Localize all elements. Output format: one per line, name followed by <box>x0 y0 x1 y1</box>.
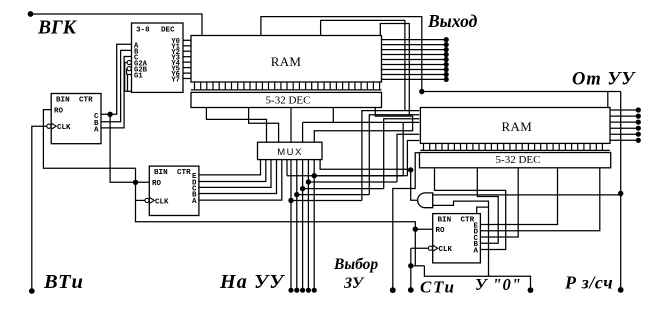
junction on MUX output x296 <box>294 192 299 197</box>
wire W2 RAM1 top to RAM2 pin row1 <box>321 20 405 110</box>
junction on P z/sch vertical <box>618 191 623 196</box>
svg-text:ВТи: ВТи <box>43 271 84 293</box>
wire to CTR3 RO <box>415 228 432 230</box>
wire Vybor ZU to U8 select <box>393 153 420 290</box>
wire CTR1.C to DEC1.A <box>101 44 132 114</box>
svg-text:СТи: СТи <box>420 278 456 297</box>
node Ot UU dots <box>636 107 641 112</box>
wire bus MUX outputs to Na UU dots <box>290 160 292 291</box>
wire select line v5 <box>287 175 407 177</box>
wire W3 RAM1 top to RAM2 pin row2 <box>380 24 409 115</box>
wire U8 pin3 to CTR3.C <box>480 168 518 237</box>
svg-text:A: A <box>192 198 197 206</box>
node Na UU dots <box>288 288 293 293</box>
wire W1 RAM1 top to junction <box>261 17 422 92</box>
junction CTR2 RO <box>133 180 138 185</box>
counter U5 BIN CTR <box>51 94 101 144</box>
junction on MUX output x314 <box>312 173 317 178</box>
counter U6 BIN CTR <box>149 166 199 215</box>
bubble G2A <box>127 60 131 64</box>
wire MUX pin7 to gate net <box>320 160 411 170</box>
svg-text:MUX: MUX <box>277 147 303 158</box>
wire CTR2.D to MUX <box>199 160 266 182</box>
wire W1 junction to P z/sch column <box>422 91 621 93</box>
svg-text:CTR: CTR <box>461 216 475 224</box>
svg-text:Выбор: Выбор <box>333 256 378 273</box>
wire CTR3 CO hook <box>477 207 489 214</box>
wire U8 pin2 to CTR3.B <box>477 168 498 243</box>
RAM U7 <box>420 108 610 144</box>
wire riser to RAM2 pin1 <box>362 111 419 201</box>
wire U8 pin1 to CTR3.A <box>435 168 506 250</box>
wire P z/sch vertical <box>620 92 622 290</box>
svg-text:G1: G1 <box>134 73 143 81</box>
svg-text:RAM: RAM <box>502 119 533 134</box>
wire gate in2 from U0 riser <box>433 201 489 276</box>
RAM U2 <box>191 36 382 83</box>
junction on MUX output x291 <box>288 198 293 203</box>
svg-text:CLK: CLK <box>439 246 453 254</box>
decoder U3 5-32 DEC <box>191 92 382 107</box>
wire riser to RAM2 pin2 <box>369 115 419 195</box>
wire U3 out3 to MUX in3 <box>290 108 292 143</box>
svg-text:От УУ: От УУ <box>572 70 636 90</box>
svg-text:RO: RO <box>152 180 162 188</box>
node Vybor ZU dot <box>390 287 396 293</box>
svg-text:Выход: Выход <box>427 11 478 31</box>
node STi dot <box>408 287 414 293</box>
wire bus RAM1 outputs to Vyhod dots <box>382 39 447 41</box>
junction STi line <box>408 263 413 268</box>
svg-text:RO: RO <box>54 108 64 116</box>
svg-text:CLK: CLK <box>155 198 169 206</box>
junction on CTR1.C line <box>107 112 112 117</box>
svg-text:ЗУ: ЗУ <box>343 275 365 292</box>
gate D1 AND (mirrored, output left) <box>418 193 433 208</box>
wire CTR2.B to MUX <box>199 160 277 194</box>
wire bus DEC1 Y outputs to RAM1 <box>183 39 191 41</box>
wire STi vertical <box>410 248 412 290</box>
decoder U8 5-32 DEC <box>420 153 611 168</box>
node VTi dot <box>29 288 35 294</box>
wire U3 out5 to MUX in5 <box>314 108 412 143</box>
svg-text:Y7: Y7 <box>171 76 180 84</box>
bubble CLK U5 <box>47 124 51 128</box>
wire U8 pin4 to CTR3.E <box>480 168 557 225</box>
wire CLK1 to VTi dot <box>32 126 47 291</box>
junction W1 <box>419 89 424 94</box>
counter U9 BIN CTR <box>433 214 481 263</box>
svg-text:RAM: RAM <box>271 54 302 69</box>
wire G1 stub <box>128 75 132 92</box>
junction gate output <box>408 167 413 172</box>
wire C-dot vertical to CTR2.RO <box>110 114 149 182</box>
wire riser to RAM2 pin6 <box>407 141 419 176</box>
svg-text:5-32 DEC: 5-32 DEC <box>496 154 541 166</box>
wire U0 path <box>424 266 530 290</box>
node U0 dot <box>528 287 534 293</box>
bubble G2B <box>127 67 131 71</box>
wire CTR1.A to DEC1.C <box>101 57 132 128</box>
svg-text:BIN: BIN <box>56 96 70 104</box>
junction CTR3 RO <box>413 227 418 232</box>
wire U8 pin5 to CTR3.D <box>480 168 599 231</box>
wire bus comb RAM1 to 5-32 DEC <box>191 89 382 91</box>
wire CTR2.A to MUX <box>199 160 282 201</box>
wire MUX in4 drop <box>302 122 304 142</box>
node P z/sch terminal dot <box>618 287 624 293</box>
svg-text:CTR: CTR <box>177 169 191 177</box>
wire CTR2.C to MUX <box>199 160 271 188</box>
svg-text:У "0": У "0" <box>475 275 522 294</box>
wire bus comb RAM2 to 5-32 DEC <box>420 149 610 151</box>
wire MUX in4 horizontal run <box>303 121 420 123</box>
svg-text:A: A <box>94 126 99 134</box>
svg-text:3-8: 3-8 <box>136 26 150 34</box>
wire branch y188 <box>303 188 384 190</box>
node Vyhod output dots <box>444 37 449 42</box>
wire bottom tie <box>411 265 425 267</box>
wire riser to RAM2 pin3 <box>384 119 420 189</box>
wire bus RAM2 outputs to Ot UU dots <box>610 109 638 111</box>
wire branch y200 <box>291 200 362 202</box>
svg-text:RO: RO <box>436 227 446 235</box>
bubble CLK U9 <box>428 246 432 250</box>
svg-text:BIN: BIN <box>154 169 168 177</box>
wire U3 out1 to MUX in1 <box>206 108 266 143</box>
svg-text:Р з/сч: Р з/сч <box>564 273 613 293</box>
bubble CLK U6 <box>145 198 149 202</box>
wire riser x403 <box>402 122 404 175</box>
svg-text:CLK: CLK <box>57 124 71 132</box>
svg-text:DEC: DEC <box>161 26 175 34</box>
wire branch y194 <box>297 194 370 196</box>
wire U3 out4 drop <box>332 108 334 123</box>
wire U3 out2 to MUX in2 <box>249 108 279 143</box>
svg-text:BIN: BIN <box>438 216 452 224</box>
svg-text:На УУ: На УУ <box>219 271 285 293</box>
wire to CTR3 CLK bubble <box>411 247 429 249</box>
svg-text:5-32 DEC: 5-32 DEC <box>266 95 311 107</box>
node VGK input dot <box>28 11 34 17</box>
multiplexer U4 MUX <box>258 142 323 159</box>
wire branch y182 <box>308 181 397 183</box>
svg-text:A: A <box>473 247 478 255</box>
wire staple into RAM2 top <box>607 92 609 108</box>
decoder U1 3-8 DEC <box>132 23 184 92</box>
wire G2B tie to G1 <box>126 69 128 75</box>
wire to CTR2 CLK bubble <box>136 199 146 201</box>
wire G2A stub <box>125 63 132 92</box>
wire gate in1 long line <box>433 194 621 196</box>
wire CTR1.B to DEC1.B <box>101 50 132 121</box>
wire riser to RAM2 pin5 <box>397 134 419 182</box>
wire VGK to RAM1 top <box>31 14 203 36</box>
junction on MUX output x308 <box>306 179 311 184</box>
wire MUX pin6 drop <box>286 160 288 176</box>
junction on MUX output x302 <box>300 186 305 191</box>
svg-text:CTR: CTR <box>79 96 93 104</box>
wire gate output up <box>411 169 418 200</box>
svg-text:ВГК: ВГК <box>37 18 78 39</box>
wire RO chain net <box>43 110 415 266</box>
wire CTR2.E to MUX <box>199 160 261 175</box>
wire branch y175 <box>314 175 403 177</box>
